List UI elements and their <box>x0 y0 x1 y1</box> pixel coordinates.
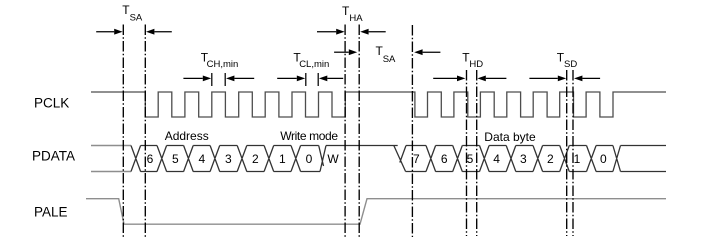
marker line: T_SA start (PALE low) <box>122 25 124 238</box>
svg-text:0: 0 <box>600 152 607 166</box>
svg-text:6: 6 <box>441 152 448 166</box>
svg-text:7: 7 <box>413 152 420 166</box>
marker line: T_SA end (PCLK start) <box>144 25 146 238</box>
PDATA lead-in lines <box>91 146 131 172</box>
svg-text:HA: HA <box>349 13 363 24</box>
marker line: T_HA start <box>344 25 346 238</box>
marker line: T_HA end / T_SA2 start <box>358 25 360 238</box>
PALE waveform <box>86 199 666 225</box>
svg-text:4: 4 <box>493 152 500 166</box>
PCLK waveform <box>91 92 666 117</box>
marker line: T_SA2 end (data valid) <box>411 25 413 237</box>
svg-text:3: 3 <box>520 152 527 166</box>
svg-text:SA: SA <box>130 13 143 24</box>
marker line: T_HD start <box>466 70 468 236</box>
svg-text:SD: SD <box>564 59 577 70</box>
marker line: T_HD end <box>476 70 478 236</box>
svg-text:5: 5 <box>172 152 179 166</box>
T_SA2 arrows <box>334 51 349 53</box>
T_HA arrows <box>317 31 336 33</box>
svg-text:2: 2 <box>547 152 554 166</box>
svg-text:2: 2 <box>252 152 259 166</box>
svg-text:Write mode: Write mode <box>280 129 338 143</box>
T_SD arrows <box>529 77 557 79</box>
T_CH tick left <box>211 73 213 86</box>
svg-text:HD: HD <box>469 59 483 70</box>
svg-text:0: 0 <box>306 152 313 166</box>
T_CH tick right <box>224 73 226 86</box>
svg-text:Data byte: Data byte <box>484 130 536 144</box>
svg-text:PALE: PALE <box>34 205 68 220</box>
svg-text:PDATA: PDATA <box>32 149 75 164</box>
svg-text:5: 5 <box>467 152 474 166</box>
T_CH,min arrows <box>183 77 202 79</box>
marker line: T_SD end <box>572 70 574 236</box>
PDATA data byte bus cells outline (bits 7..0) <box>394 146 666 172</box>
svg-text:4: 4 <box>198 152 205 166</box>
T_HD arrows <box>433 77 457 79</box>
svg-text:CH,min: CH,min <box>207 59 239 70</box>
svg-text:1: 1 <box>574 152 581 166</box>
svg-text:6: 6 <box>147 152 154 166</box>
PDATA address bus cells outline (bits 6..0, W) <box>131 146 398 172</box>
marker line: T_SD start <box>566 70 568 236</box>
svg-text:CL,min: CL,min <box>299 59 329 70</box>
T_CL tick right <box>317 73 319 86</box>
svg-text:Address: Address <box>165 129 209 143</box>
T_CL,min arrows <box>277 77 297 79</box>
svg-text:3: 3 <box>225 152 232 166</box>
T_CL tick left <box>305 73 307 86</box>
svg-text:W: W <box>327 152 339 166</box>
svg-text:1: 1 <box>279 152 286 166</box>
T_SA arrows (row 1) <box>96 31 114 33</box>
svg-text:SA: SA <box>383 54 396 65</box>
svg-text:PCLK: PCLK <box>34 95 69 110</box>
